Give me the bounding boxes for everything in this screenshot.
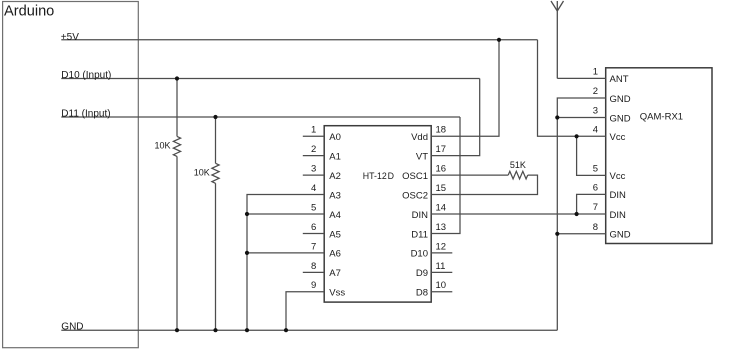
svg-text:2: 2 (593, 86, 598, 97)
svg-text:10K: 10K (194, 168, 210, 178)
svg-text:6: 6 (311, 222, 316, 233)
svg-text:15: 15 (436, 183, 447, 194)
svg-text:VT: VT (416, 151, 428, 162)
svg-text:A5: A5 (329, 229, 341, 240)
svg-text:1: 1 (311, 125, 316, 136)
svg-text:6: 6 (593, 182, 598, 193)
svg-text:4: 4 (593, 124, 598, 135)
svg-text:OSC2: OSC2 (402, 190, 428, 201)
svg-text:GND: GND (610, 230, 631, 241)
svg-text:1: 1 (593, 66, 598, 77)
svg-text:D11: D11 (411, 229, 428, 240)
svg-text:GND: GND (61, 322, 83, 333)
svg-text:GND: GND (610, 94, 631, 105)
svg-text:+5V: +5V (61, 32, 79, 43)
svg-text:D8: D8 (416, 288, 428, 299)
svg-text:10: 10 (436, 280, 447, 291)
svg-text:A7: A7 (329, 268, 341, 279)
svg-text:Vdd: Vdd (411, 132, 428, 143)
svg-text:18: 18 (436, 125, 447, 136)
svg-text:4: 4 (311, 183, 316, 194)
svg-text:QAM-RX1: QAM-RX1 (640, 112, 683, 123)
svg-text:9: 9 (311, 280, 316, 291)
svg-text:8: 8 (593, 222, 598, 233)
svg-text:13: 13 (436, 222, 447, 233)
svg-text:D10: D10 (411, 249, 428, 260)
svg-text:A1: A1 (329, 151, 341, 162)
svg-text:51K: 51K (510, 160, 526, 170)
svg-text:D9: D9 (416, 268, 428, 279)
svg-text:D10 (Input): D10 (Input) (61, 70, 111, 81)
svg-text:12: 12 (436, 241, 447, 252)
svg-text:DIN: DIN (610, 190, 627, 201)
svg-text:OSC1: OSC1 (402, 171, 428, 182)
svg-text:2: 2 (311, 144, 316, 155)
svg-text:5: 5 (593, 163, 598, 174)
svg-text:11: 11 (436, 261, 446, 272)
svg-text:7: 7 (593, 202, 598, 213)
svg-text:Arduino: Arduino (4, 3, 54, 19)
svg-text:D11 (Input): D11 (Input) (61, 109, 110, 120)
svg-text:HT-12: HT-12 (363, 171, 387, 181)
svg-text:Vcc: Vcc (610, 132, 626, 143)
svg-text:DIN: DIN (412, 210, 429, 221)
svg-text:A4: A4 (329, 210, 341, 221)
svg-text:3: 3 (311, 164, 316, 175)
svg-text:Vss: Vss (329, 288, 345, 299)
svg-text:A0: A0 (329, 132, 341, 143)
svg-text:ANT: ANT (610, 74, 629, 85)
svg-text:A6: A6 (329, 249, 341, 260)
svg-text:D: D (388, 171, 394, 181)
svg-text:GND: GND (610, 113, 631, 124)
svg-text:3: 3 (593, 106, 598, 117)
svg-text:17: 17 (436, 144, 447, 155)
svg-text:5: 5 (311, 202, 316, 213)
svg-text:DIN: DIN (610, 210, 627, 221)
svg-text:10K: 10K (154, 141, 170, 151)
svg-text:14: 14 (436, 202, 447, 213)
svg-text:A2: A2 (329, 171, 341, 182)
svg-text:8: 8 (311, 261, 316, 272)
svg-text:Vcc: Vcc (610, 171, 626, 182)
svg-text:7: 7 (311, 241, 316, 252)
svg-text:16: 16 (436, 164, 447, 175)
svg-text:A3: A3 (329, 190, 341, 201)
